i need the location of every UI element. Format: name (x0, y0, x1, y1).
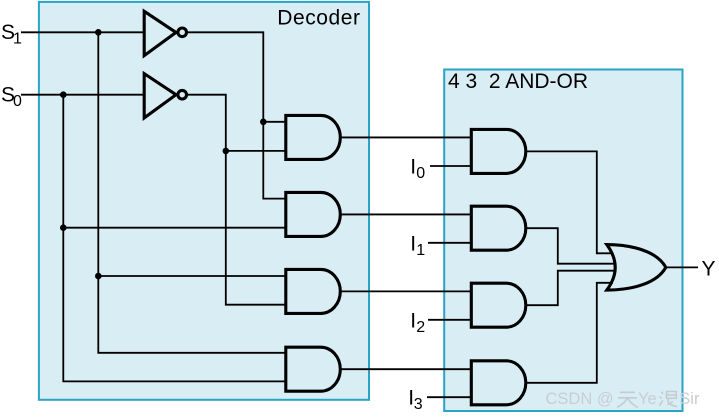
wire: branch S1n to AND G1 top input (263, 121, 286, 123)
wire: I3 input stub to G8 bottom input (427, 396, 471, 398)
inverter U2 (S0 NOT gate) (144, 74, 186, 118)
svg-text:Decoder: Decoder (277, 7, 360, 30)
AND gate G5 (I0 AND) (471, 129, 526, 173)
svg-text:Ye: Ye (638, 390, 657, 408)
svg-text:1: 1 (13, 31, 22, 48)
wire: I1 input stub to G6 bottom input (428, 242, 471, 244)
wire: S0 input to inverter U2 (21, 94, 144, 96)
wire: I2 input stub to G7 bottom input (428, 319, 471, 321)
svg-text:Sir: Sir (679, 390, 700, 408)
node: junction S0 at G2 bottom input (60, 224, 67, 231)
label S1 (input net S1) (1, 21, 22, 48)
inverter U1 (S1 NOT gate) (144, 11, 186, 55)
svg-text:Y: Y (702, 258, 716, 281)
wire: branch S1 to AND G3 top input (98, 275, 285, 277)
label I1 (input net I1) (410, 232, 425, 258)
wire: branch S0n to AND G1 bottom input (226, 150, 286, 152)
AND gate G1 (decoder minterm 0) (286, 115, 341, 159)
svg-text:2: 2 (416, 319, 425, 336)
wire: I0 input stub to G5 bottom input (430, 165, 471, 167)
AND gate G3 (decoder minterm 2) (286, 269, 341, 313)
wire: G7 output to OR U5 input 3 (526, 271, 615, 306)
svg-text:I: I (410, 156, 416, 179)
svg-text:CSDN @: CSDN @ (546, 390, 614, 408)
label I0 (input net I0) (410, 156, 425, 183)
AND gate G2 (decoder minterm 1) (286, 192, 341, 236)
node: junction S0n at G1 bottom input (223, 148, 230, 155)
label I3 (input net I3) (408, 387, 423, 414)
AND gate G7 (I2 AND) (471, 283, 526, 327)
wire: S1 vertical trunk down to AND G4 top input (98, 32, 285, 353)
AND gate G8 (I3 AND) (471, 361, 526, 405)
wire: OR U5 output to Y (666, 266, 698, 268)
wire: S0 vertical trunk down to AND G4 bottom input (63, 95, 285, 382)
svg-text:4 3 2 AND-OR: 4 3 2 AND-OR (448, 70, 588, 93)
wire: U1 output to node S1n vertical (188, 32, 286, 198)
wire: G2 output to G6 top input (minterm 1) (340, 213, 471, 215)
svg-text:1: 1 (416, 242, 425, 259)
node: junction S0 trunk on S0 wire (60, 91, 67, 98)
wire: U2 output to node S0n vertical (188, 95, 286, 305)
OR gate U5 (output OR) (607, 245, 666, 291)
svg-text:0: 0 (13, 93, 22, 110)
node: junction S1n at G1 top input (260, 119, 267, 126)
svg-text:0: 0 (416, 165, 425, 182)
wire: S1 input to inverter U1 (21, 31, 144, 33)
watermark CSDN @天Ye浪Sir (546, 390, 700, 408)
wire: G3 output to G7 top input (minterm 2) (340, 290, 471, 292)
wire: G8 output to OR U5 input 4 (526, 283, 613, 383)
node: junction S1 at G3 top input (95, 273, 102, 280)
svg-text:I: I (410, 309, 416, 332)
AND gate G6 (I1 AND) (471, 206, 526, 250)
wire: G1 output to G5 top input (minterm 0) (340, 136, 471, 138)
wire: G6 output to OR U5 input 2 (526, 228, 615, 264)
wire: G4 output to G8 top input (minterm 3) (340, 368, 471, 370)
svg-text:3: 3 (414, 396, 423, 413)
label I2 (input net I2) (410, 309, 425, 336)
svg-text:I: I (410, 232, 416, 255)
label S0 (input net S0) (1, 84, 22, 111)
node: junction S1 trunk on S1 wire (95, 29, 102, 36)
AND-OR block boundary box (444, 70, 682, 412)
AND gate G4 (decoder minterm 3) (286, 347, 340, 391)
wire: branch S0 to AND G2 bottom input (63, 227, 285, 229)
wire: G5 output to OR U5 input 1 (526, 151, 613, 253)
Decoder block boundary box (39, 2, 369, 400)
